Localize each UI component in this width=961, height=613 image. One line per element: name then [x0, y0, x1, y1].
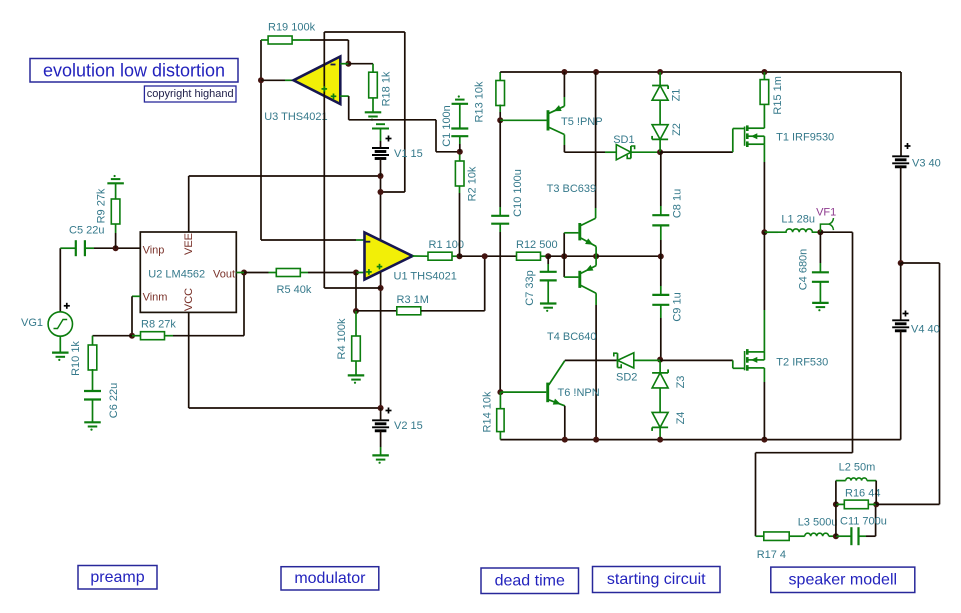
svg-text:C8 1u: C8 1u [672, 189, 684, 218]
svg-text:copyright highand: copyright highand [147, 88, 234, 100]
svg-text:L1 28u: L1 28u [781, 214, 815, 226]
svg-text:V4 40: V4 40 [911, 324, 940, 336]
svg-text:R5 40k: R5 40k [277, 284, 312, 296]
svg-text:R4 100k: R4 100k [336, 318, 348, 359]
svg-text:dead time: dead time [495, 572, 565, 589]
svg-text:evolution low distortion: evolution low distortion [43, 60, 225, 80]
svg-text:SD2: SD2 [616, 372, 637, 384]
svg-text:R2 10k: R2 10k [467, 166, 479, 201]
svg-text:Vinm: Vinm [143, 292, 168, 304]
svg-text:preamp: preamp [90, 569, 144, 586]
svg-text:R18 1k: R18 1k [381, 71, 393, 106]
svg-text:speaker modell: speaker modell [789, 571, 898, 588]
svg-text:Vout: Vout [213, 268, 235, 280]
svg-text:R8 27k: R8 27k [141, 319, 176, 331]
svg-text:V3 40: V3 40 [912, 158, 941, 170]
svg-text:R14 10k: R14 10k [482, 391, 494, 432]
svg-text:T3 BC639: T3 BC639 [547, 183, 597, 195]
svg-text:R16 44: R16 44 [845, 488, 880, 500]
svg-text:U3 THS4021: U3 THS4021 [264, 111, 327, 123]
svg-text:modulator: modulator [294, 570, 366, 587]
svg-text:L3 500u: L3 500u [798, 517, 838, 529]
svg-text:Z3: Z3 [675, 376, 687, 389]
svg-text:Z2: Z2 [671, 123, 683, 136]
svg-text:R3 1M: R3 1M [397, 294, 429, 306]
svg-text:T6 !NPN: T6 !NPN [558, 387, 600, 399]
svg-text:VEE: VEE [183, 233, 195, 255]
svg-text:Z4: Z4 [675, 412, 687, 425]
svg-text:C4 680n: C4 680n [798, 249, 810, 291]
svg-text:C10 100u: C10 100u [512, 169, 524, 217]
svg-text:R10 1k: R10 1k [70, 341, 82, 376]
svg-text:VCC: VCC [183, 288, 195, 311]
svg-text:L2 50m: L2 50m [839, 462, 876, 474]
svg-text:Vinp: Vinp [143, 245, 165, 257]
svg-text:Z1: Z1 [671, 89, 683, 102]
svg-text:R13 10k: R13 10k [474, 81, 486, 122]
svg-text:T4 BC640: T4 BC640 [547, 331, 597, 343]
svg-text:VG1: VG1 [21, 317, 43, 329]
svg-text:V2 15: V2 15 [394, 420, 423, 432]
svg-text:R9 27k: R9 27k [96, 188, 108, 223]
svg-text:U2 LM4562: U2 LM4562 [148, 268, 205, 280]
svg-text:SD1: SD1 [613, 134, 634, 146]
svg-text:T2 IRF530: T2 IRF530 [776, 357, 828, 369]
svg-text:C11 700u: C11 700u [840, 515, 887, 527]
svg-text:VF1: VF1 [816, 206, 836, 218]
svg-text:R19 100k: R19 100k [268, 22, 316, 34]
svg-text:C7 33p: C7 33p [524, 270, 536, 305]
svg-text:starting circuit: starting circuit [607, 571, 706, 588]
svg-text:C1 100n: C1 100n [441, 105, 453, 147]
svg-text:R17 4: R17 4 [757, 549, 786, 561]
svg-text:R12 500: R12 500 [516, 239, 558, 251]
svg-text:R15 1m: R15 1m [772, 76, 784, 115]
svg-text:V1 15: V1 15 [394, 148, 423, 160]
svg-text:C6 22u: C6 22u [108, 383, 120, 418]
svg-text:T1 IRF9530: T1 IRF9530 [776, 132, 834, 144]
svg-text:U1 THS4021: U1 THS4021 [394, 271, 457, 283]
svg-text:C9 1u: C9 1u [672, 292, 684, 321]
svg-text:C5 22u: C5 22u [69, 225, 104, 237]
